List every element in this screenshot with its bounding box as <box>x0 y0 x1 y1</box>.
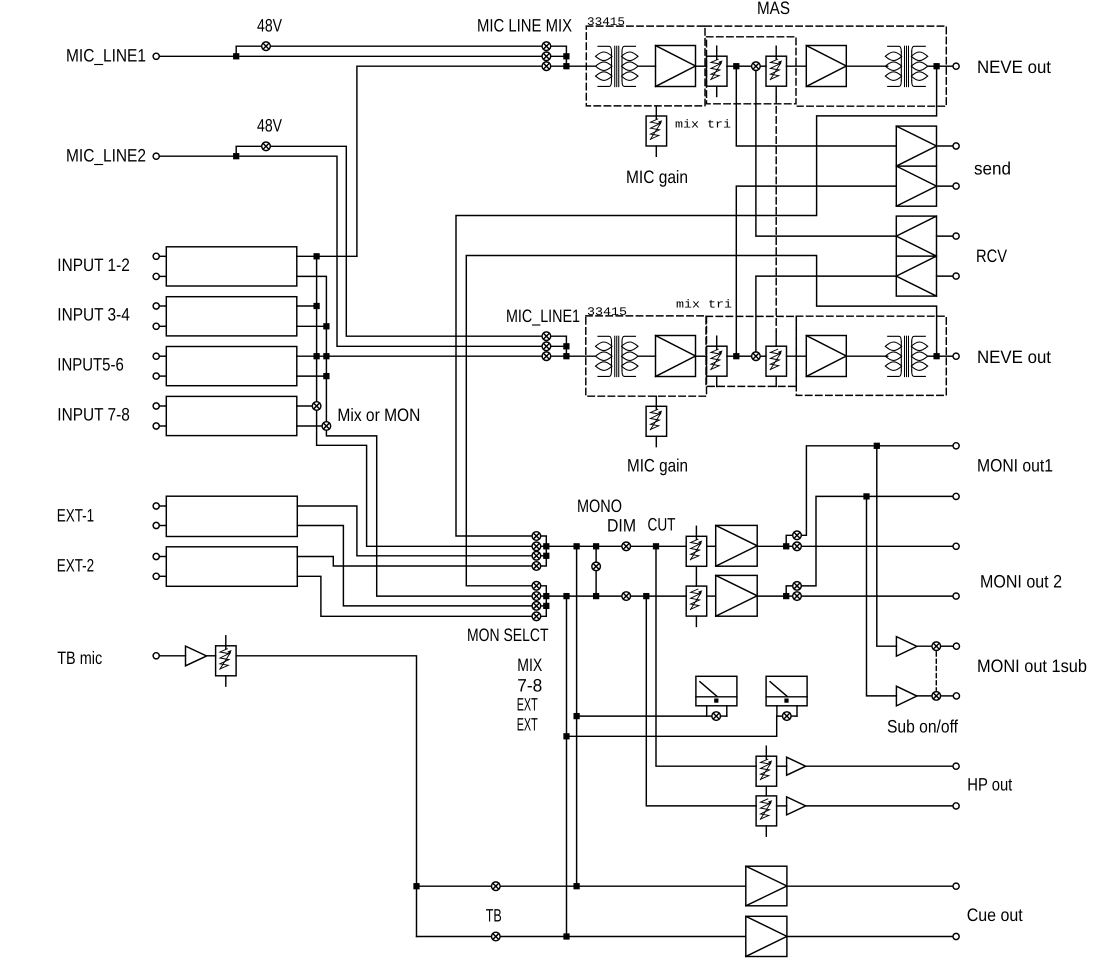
wire <box>937 235 954 237</box>
wire <box>846 65 887 67</box>
terminal MONI out1 L <box>953 443 959 449</box>
switch meter M1 <box>712 712 721 721</box>
switch 48V ch1 <box>262 42 271 51</box>
svg-text:EXT: EXT <box>517 695 538 715</box>
wire <box>159 255 166 257</box>
svg-text:INPUT5-6: INPUT5-6 <box>57 355 124 375</box>
terminal MONI out2 L <box>953 543 959 549</box>
op-amp cue L <box>746 866 787 906</box>
junction bus A to cue <box>574 884 579 889</box>
junction <box>324 324 329 329</box>
wire <box>787 885 953 887</box>
block EXT-2 <box>166 547 297 587</box>
wire sub feed L <box>877 448 897 646</box>
wire <box>541 545 547 547</box>
wire <box>707 595 716 597</box>
switch MIC sel ch2 <box>542 332 551 341</box>
wire <box>937 275 954 277</box>
dashed box mix tri ch2 <box>706 316 796 386</box>
wire <box>707 545 716 547</box>
wire <box>928 355 935 357</box>
wire <box>917 695 932 697</box>
wire sub feed R <box>867 499 897 696</box>
wire monitor bus B <box>546 595 622 597</box>
wire <box>541 555 547 557</box>
junction <box>564 344 569 349</box>
svg-text:INPUT 7-8: INPUT 7-8 <box>57 405 130 425</box>
junction send tap ch1 <box>734 64 739 69</box>
wire <box>159 575 166 577</box>
wire mix bus L <box>316 256 318 401</box>
wire <box>159 556 166 558</box>
wire <box>941 695 954 697</box>
switch MONI out1 R <box>793 582 802 591</box>
junction TB L <box>414 884 419 889</box>
svg-text:Sub on/off: Sub on/off <box>887 717 959 737</box>
wire send feed ch2 <box>736 186 896 356</box>
svg-text:MONI out 1sub: MONI out 1sub <box>977 656 1087 676</box>
svg-text:MIX: MIX <box>517 655 542 675</box>
wire <box>551 55 567 57</box>
wire meter/cue bus B <box>566 596 568 936</box>
wire 7-8 MON bus L <box>317 410 532 546</box>
wire 48V feed ch2 <box>236 146 262 156</box>
switch MONI out2 L <box>793 542 802 551</box>
wire <box>939 355 953 357</box>
wire TB to cue bus <box>236 656 416 937</box>
switch MIX sel ch2 <box>542 352 551 361</box>
wire <box>760 65 766 67</box>
pot P4 (mix tri) ch2 <box>766 346 787 386</box>
wire <box>777 765 787 767</box>
terminal HP out L <box>953 763 959 769</box>
switch meter M2 <box>783 712 792 721</box>
terminal TB mic <box>153 653 159 659</box>
wire INPUT7-8 b <box>297 425 322 427</box>
terminal INPUT5-6 a <box>153 353 159 359</box>
svg-text:NEVE out: NEVE out <box>977 57 1051 77</box>
switch MON SELCT <box>532 542 541 551</box>
junction send tap ch2 <box>734 354 739 359</box>
wire RCV return ch2 <box>756 276 896 352</box>
svg-text:DIM: DIM <box>607 515 636 535</box>
wire <box>721 715 727 717</box>
wire selector tie <box>541 586 547 617</box>
switch MON SELCT <box>532 562 541 571</box>
switch MON SELCT <box>532 612 541 621</box>
junction meter1 feed <box>574 714 579 719</box>
junction out1 tap B <box>784 594 789 599</box>
wire <box>739 355 752 357</box>
wire <box>757 595 784 597</box>
block INPUT 1-2 <box>166 247 296 286</box>
switch MONI out1 L <box>793 531 802 540</box>
wire <box>939 65 953 67</box>
wire cue bus L <box>417 885 746 887</box>
wire selector tie <box>541 536 547 566</box>
wire <box>791 715 797 717</box>
svg-text:Cue out: Cue out <box>967 905 1023 925</box>
switch DIM A <box>622 542 631 551</box>
terminal Cue out R <box>953 933 959 939</box>
transformer T3 (input) ch2 <box>596 336 639 376</box>
junction HP tap A <box>654 544 659 549</box>
junction meter2 feed <box>564 734 569 739</box>
wire <box>159 525 166 527</box>
junction <box>324 354 329 359</box>
wire INPUT1-2 b jog <box>297 276 327 421</box>
block EXT-1 <box>166 496 297 536</box>
wire pot gang link <box>695 566 697 586</box>
wire <box>638 65 656 67</box>
junction MONO tap B <box>594 594 599 599</box>
switch TB L <box>492 882 501 891</box>
wire to input transformer ch2 <box>566 355 595 357</box>
wire <box>786 355 806 357</box>
wire EXT-1 a to MON SELCT <box>297 506 532 556</box>
amplifier TB mic <box>186 646 207 666</box>
junction <box>564 64 569 69</box>
wire <box>541 595 547 597</box>
wire HP pot gang link <box>765 786 767 796</box>
wire <box>727 355 734 357</box>
terminal HP out R <box>953 803 959 809</box>
op-amp cue R <box>746 916 787 956</box>
switch Mix or MON R <box>322 422 331 431</box>
pot MIC gain ch2 <box>646 396 667 446</box>
wire MIC_LINE1 <box>159 55 236 57</box>
switch MON SELCT <box>532 592 541 601</box>
terminal INPUT 7-8 a <box>153 403 159 409</box>
terminal MONI out 1sub R <box>953 693 959 699</box>
wire to MONI out2 R <box>801 595 953 597</box>
wire mix bus to ch1 <box>357 66 542 256</box>
wire <box>846 355 887 357</box>
op-amp A2 ch1 <box>806 46 846 87</box>
terminal NEVE out 1 <box>953 63 959 69</box>
wire NEVE1 to MON SELCT <box>456 66 937 536</box>
op-amp A1 ch1 <box>656 46 696 87</box>
switch 48V ch2 <box>262 142 271 151</box>
junction <box>234 54 239 59</box>
svg-text:Mix or MON: Mix or MON <box>337 405 420 425</box>
amplifier HP L <box>787 757 806 775</box>
terminal INPUT 3-4 a <box>153 303 159 309</box>
terminal INPUT 7-8 b <box>153 423 159 429</box>
wire <box>159 655 185 657</box>
pot P1 (mix tri) ch1 <box>707 46 728 96</box>
switch LINE sel ch1 <box>542 52 551 61</box>
switch MON SELCT <box>532 602 541 611</box>
junction sub tap R <box>864 494 869 499</box>
wire <box>577 715 713 717</box>
wire HP feed R <box>646 599 756 806</box>
svg-text:48V: 48V <box>257 16 282 36</box>
wire <box>551 345 567 347</box>
svg-text:MIC_LINE1: MIC_LINE1 <box>66 45 146 65</box>
junction NEVE out ch2 <box>934 354 939 359</box>
dashed box MAS right section <box>705 26 946 106</box>
wire <box>159 325 166 327</box>
terminal send L <box>953 143 959 149</box>
svg-text:MON SELCT: MON SELCT <box>467 625 549 645</box>
wire <box>541 605 547 607</box>
switch RCV inject ch2 <box>752 352 761 361</box>
pot TB level <box>216 636 237 686</box>
terminal EXT-1 a <box>153 503 159 509</box>
svg-text:TB: TB <box>486 905 502 925</box>
terminal EXT-1 b <box>153 522 159 528</box>
wire INPUT7-8 a <box>297 405 313 407</box>
svg-text:7-8: 7-8 <box>517 676 542 696</box>
wire <box>159 305 166 307</box>
wire <box>159 355 166 357</box>
junction out1 tap A <box>784 544 789 549</box>
wire <box>928 65 935 67</box>
switch MONI out2 R <box>793 592 802 601</box>
junction <box>324 374 329 379</box>
svg-text:HP out: HP out <box>967 774 1012 794</box>
svg-text:NEVE out: NEVE out <box>977 347 1051 367</box>
pot P3 (mix tri) ch2 <box>707 336 728 386</box>
svg-text:MIC LINE MIX: MIC LINE MIX <box>477 16 572 36</box>
junction <box>564 354 569 359</box>
wire <box>159 275 166 277</box>
svg-text:EXT: EXT <box>517 715 538 735</box>
wire <box>760 355 766 357</box>
svg-text:MAS: MAS <box>757 0 790 18</box>
wire gang (dashed) <box>775 97 777 332</box>
junction <box>544 553 549 558</box>
wire monitor bus A <box>546 545 622 547</box>
op-amp A3 ch2 <box>656 336 696 377</box>
wire EXT-2 a to MON SELCT <box>297 557 532 567</box>
wire <box>207 655 216 657</box>
wire <box>159 405 166 407</box>
wire 48V ch2 jog <box>270 146 542 336</box>
terminal MIC_LINE1 <box>153 53 159 59</box>
pot P2 (mix tri) ch1 <box>766 46 787 96</box>
switch MIX sel ch1 <box>542 62 551 71</box>
wire selector tie ch1 <box>551 46 567 66</box>
wire NEVE2 to MON SELCT <box>466 256 936 586</box>
wire MIC_LINE2 jog <box>240 156 542 346</box>
junction <box>314 304 319 309</box>
wire meter/cue bus A <box>576 546 578 886</box>
amplifier HP R <box>787 797 806 815</box>
pot HP level L <box>756 746 777 786</box>
svg-text:MONO: MONO <box>577 496 622 516</box>
dashed box output section ch2 <box>796 316 946 395</box>
junction NEVE out ch1 <box>934 64 939 69</box>
wire <box>727 65 734 67</box>
wire MIC_LINE1 to mix node <box>240 55 542 57</box>
svg-text:33415: 33415 <box>587 306 627 319</box>
svg-text:RCV: RCV <box>976 246 1007 266</box>
svg-text:EXT-1: EXT-1 <box>57 505 94 525</box>
terminal MONI out1 R <box>953 493 959 499</box>
wire INPUT5-6 a / mix bus to ch2 <box>297 355 542 357</box>
switch TB R <box>492 932 501 941</box>
svg-text:MIC_LINE2: MIC_LINE2 <box>66 145 146 165</box>
junction <box>314 354 319 359</box>
wire 7-8 MON bus R <box>326 430 532 596</box>
switch RCV inject ch1 <box>752 62 761 71</box>
wire MIC_LINE2 <box>159 155 236 157</box>
transformer T1 (input) ch1 <box>596 46 639 86</box>
op-amp monitor A <box>716 525 758 566</box>
svg-text:mix tri: mix tri <box>675 119 731 132</box>
junction <box>564 54 569 59</box>
amplifier send L <box>896 126 936 206</box>
svg-text:CUT: CUT <box>648 514 676 534</box>
wire <box>789 595 793 597</box>
junction meter tap A <box>574 544 579 549</box>
wire meter2 feed <box>567 716 783 736</box>
wire EXT-1 b to MON SELCT <box>297 526 532 606</box>
wire INPUT3-4 b <box>297 325 327 327</box>
pot HP level R <box>756 796 777 836</box>
wire <box>777 805 787 807</box>
terminal EXT-2 a <box>153 553 159 559</box>
transformer T2 (output) ch1 <box>885 46 927 86</box>
wire MONI out1 R riser <box>801 496 953 586</box>
wire <box>941 645 954 647</box>
terminal MIC_LINE2 <box>153 153 159 159</box>
wire <box>739 65 752 67</box>
switch sub on/off R <box>932 692 941 701</box>
switch MON SELCT <box>532 532 541 541</box>
junction <box>544 544 549 549</box>
terminal INPUT 3-4 b <box>153 323 159 329</box>
op-amp A4 ch2 <box>806 336 846 377</box>
wire selector tie ch2 <box>551 336 567 356</box>
wire <box>786 65 806 67</box>
wire <box>551 65 567 67</box>
wire <box>631 595 687 597</box>
wire send feed ch1 <box>736 66 896 146</box>
wire <box>937 145 954 147</box>
terminal NEVE out 2 <box>953 353 959 359</box>
wire <box>917 645 932 647</box>
switch DIM B <box>622 592 631 601</box>
svg-text:MIC_LINE1: MIC_LINE1 <box>506 306 580 326</box>
svg-text:48V: 48V <box>257 116 282 136</box>
wire <box>937 185 954 187</box>
wire <box>159 375 166 377</box>
wire <box>757 545 784 547</box>
wire gang stub <box>775 332 777 347</box>
wire <box>806 765 953 767</box>
dashed box 33415 ch1 <box>586 26 705 106</box>
wire <box>638 355 656 357</box>
wire EXT-2 b to MON SELCT <box>297 576 532 616</box>
pot MIC gain ch1 <box>646 106 667 156</box>
switch Mix or MON L <box>312 402 321 411</box>
junction <box>234 154 239 159</box>
svg-text:EXT-2: EXT-2 <box>57 555 94 575</box>
terminal INPUT5-6 b <box>153 373 159 379</box>
wire to input transformer ch1 <box>566 65 595 67</box>
terminal INPUT 1-2 a <box>153 253 159 259</box>
dashed box 33415 ch2 <box>586 316 707 396</box>
junction <box>314 254 319 259</box>
wire <box>631 545 687 547</box>
block INPUT 3-4 <box>166 297 296 336</box>
wire MONI out1 R feed <box>786 586 793 594</box>
dashed box mix tri ch1 <box>707 37 797 104</box>
block INPUT5-6 <box>166 347 296 386</box>
terminal Cue out L <box>953 883 959 889</box>
wire RCV return ch1 <box>756 71 896 237</box>
wire cue bus R <box>417 936 746 938</box>
amplifier sub L <box>896 637 917 657</box>
svg-text:send: send <box>974 159 1011 179</box>
meter M2 <box>766 676 807 716</box>
junction <box>544 594 549 599</box>
wire <box>551 355 567 357</box>
op-amp monitor B <box>716 575 758 616</box>
terminal RCV R <box>953 273 959 279</box>
svg-text:MIC gain: MIC gain <box>626 167 688 187</box>
wire sub gang (dashed) <box>935 652 937 690</box>
terminal MONI out2 R <box>953 593 959 599</box>
svg-text:TB mic: TB mic <box>57 648 102 668</box>
wire <box>159 425 166 427</box>
wire MONO link <box>595 546 597 596</box>
switch MON SELCT <box>532 582 541 591</box>
block INPUT 7-8 <box>166 396 296 435</box>
switch MIC sel ch1 <box>542 42 551 51</box>
terminal RCV L <box>953 233 959 239</box>
switch MON SELCT <box>532 552 541 561</box>
wire HP feed L <box>656 549 756 767</box>
terminal MONI out 1sub L <box>953 643 959 649</box>
svg-text:MONI out1: MONI out1 <box>977 456 1053 476</box>
wire <box>159 505 166 507</box>
svg-text:MONI out 2: MONI out 2 <box>980 571 1062 591</box>
amplifier sub R <box>896 686 917 706</box>
wire <box>806 805 953 807</box>
pot monitor level B <box>686 586 707 626</box>
svg-text:MIC gain: MIC gain <box>627 456 688 476</box>
wire INPUT3-4 a <box>297 305 317 307</box>
pot monitor level A <box>686 526 707 566</box>
switch sub on/off L <box>932 642 941 651</box>
svg-text:mix tri: mix tri <box>676 299 732 312</box>
transformer T4 (output) ch2 <box>885 336 927 376</box>
junction bus B to cue <box>564 934 569 939</box>
wire <box>789 545 793 547</box>
junction meter tap B <box>564 594 569 599</box>
svg-text:33415: 33415 <box>587 16 625 29</box>
svg-text:INPUT 1-2: INPUT 1-2 <box>57 255 130 275</box>
wire MONI out1 L feed <box>786 535 793 544</box>
switch LINE sel ch2 <box>542 342 551 351</box>
wire INPUT1-2 a <box>297 255 357 257</box>
terminal EXT-2 b <box>153 573 159 579</box>
terminal INPUT 1-2 b <box>153 273 159 279</box>
wire INPUT5-6 b <box>297 375 327 377</box>
wire <box>787 936 953 938</box>
terminal send R <box>953 183 959 189</box>
junction MONO tap A <box>594 544 599 549</box>
amplifier RCV L <box>896 216 936 296</box>
junction <box>544 604 549 609</box>
svg-text:INPUT 3-4: INPUT 3-4 <box>57 305 130 325</box>
wire to MONI out2 L <box>801 545 953 547</box>
wire 48V feed ch1 <box>236 46 542 56</box>
